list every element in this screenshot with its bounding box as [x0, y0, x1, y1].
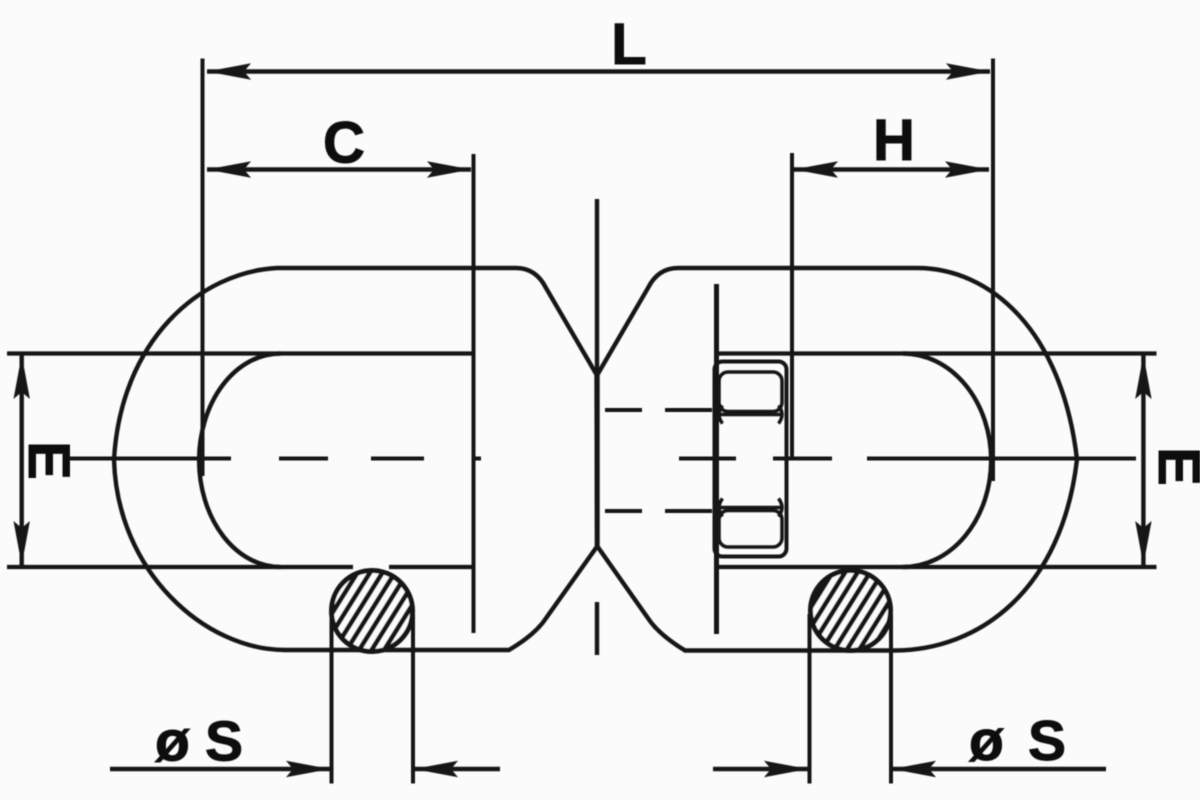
diameter S left tangent extension line 2	[411, 614, 415, 784]
diameter S right arrow pointing left	[892, 761, 936, 777]
diameter S right dimension line (left part)	[713, 767, 808, 771]
svg-text:H: H	[873, 108, 915, 173]
horizontal centerline dash 6	[773, 457, 832, 461]
extension line left of H	[790, 153, 794, 458]
diameter S left tangent extension line 1	[330, 614, 334, 784]
left cross-section circle (hatched)	[332, 571, 413, 652]
E left up arrow	[14, 355, 30, 399]
horizontal centerline tick 4	[474, 457, 481, 461]
nut outline	[715, 362, 787, 557]
E right bottom extension line	[716, 565, 1157, 569]
dimension L right arrow	[946, 63, 990, 79]
nut chamfer arc lower-right	[779, 499, 783, 517]
nut chamfer arc lower-left	[719, 499, 723, 517]
vertical centerline and swivel seam	[595, 199, 599, 547]
horizontal centerline dash 2	[279, 457, 328, 461]
dimension L left arrow	[207, 63, 251, 79]
nut division line upper	[719, 413, 781, 417]
right cross-section circle (hatched)	[811, 571, 891, 651]
nut boss vertical line	[714, 284, 719, 634]
extension line right of L	[991, 59, 995, 482]
E right up arrow	[1135, 355, 1151, 399]
nut top face	[719, 372, 782, 412]
hidden stud line upper dash 2	[665, 408, 712, 412]
diameter S left dimension line (right part)	[414, 767, 500, 771]
E left top extension line	[7, 351, 472, 355]
diameter S right tangent extension line 1	[808, 614, 812, 784]
E left down arrow	[14, 521, 30, 565]
right eye outer body	[598, 268, 1078, 651]
hidden stud line upper dash 1	[605, 408, 642, 412]
diameter S right arrow pointing right	[764, 761, 808, 777]
nut chamfer arc upper-left	[719, 406, 723, 424]
left eye inner opening cap	[199, 354, 280, 568]
dimension E left vertical line	[20, 354, 24, 566]
dimension C right arrow	[427, 161, 471, 177]
horizontal centerline segment 7	[867, 457, 1136, 461]
dimension C line	[207, 167, 471, 171]
diameter S right dimension line (right part)	[892, 767, 1106, 771]
diameter S left dimension line (left part)	[110, 767, 330, 771]
horizontal centerline dash 3	[371, 457, 424, 461]
dimension H left arrow	[794, 161, 838, 177]
left eye outer body	[114, 268, 597, 650]
diameter S left arrow pointing right	[286, 761, 330, 777]
dimension L line	[207, 69, 990, 73]
diameter S right tangent extension line 2	[889, 614, 893, 784]
dimension H right arrow	[945, 161, 989, 177]
dimension H line	[794, 167, 989, 171]
dimension E right vertical line	[1141, 354, 1145, 566]
extension line left of L and C	[201, 59, 205, 477]
horizontal centerline dash 5	[679, 457, 736, 461]
nut chamfer arc upper-right	[779, 406, 783, 424]
svg-text:L: L	[611, 12, 646, 77]
vertical centerline lower tick	[595, 602, 599, 655]
E left bottom extension line (left part)	[7, 565, 353, 569]
right eye inner opening cap	[903, 354, 991, 568]
svg-text:E: E	[1146, 447, 1200, 486]
E right down arrow	[1135, 521, 1151, 565]
E left bottom extension line (right part)	[389, 565, 472, 569]
horizontal centerline segment 1	[69, 457, 231, 461]
dimension C left arrow	[207, 161, 251, 177]
diameter S left arrow pointing left	[414, 761, 458, 777]
E right top extension line	[716, 351, 1157, 355]
hidden stud line lower dash 2	[665, 509, 712, 513]
hidden stud line lower dash 1	[605, 509, 642, 513]
nut division line lower	[719, 506, 781, 510]
svg-text:C: C	[323, 111, 365, 176]
extension line right of C	[472, 154, 476, 633]
nut bottom face	[719, 511, 782, 548]
